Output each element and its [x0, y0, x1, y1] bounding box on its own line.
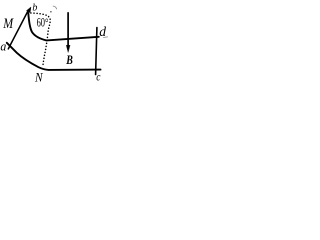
field arrow B head	[66, 45, 70, 52]
svg-text:60°: 60°	[37, 16, 49, 30]
svg-text:B: B	[66, 52, 74, 67]
svg-text:c: c	[96, 69, 101, 83]
rod dc	[96, 28, 97, 75]
wire left curved rail from a down to N and bottom rail N to c	[7, 43, 101, 70]
svg-text:d: d	[99, 24, 106, 39]
svg-text:b: b	[32, 3, 37, 14]
wire top curved rail from b down and right to d	[28, 13, 99, 40]
rod ab	[8, 11, 28, 49]
arrowhead at b	[27, 7, 31, 12]
faint edge mark right	[104, 36, 108, 39]
svg-text:N: N	[34, 71, 43, 85]
svg-text:M: M	[3, 16, 15, 32]
stray squiggle mark upper right of 60	[53, 6, 56, 9]
dotted arc swing path from b to N	[31, 13, 50, 67]
field arrow B shaft	[67, 13, 69, 47]
stray dot mark	[50, 11, 52, 13]
svg-text:a: a	[0, 38, 6, 53]
